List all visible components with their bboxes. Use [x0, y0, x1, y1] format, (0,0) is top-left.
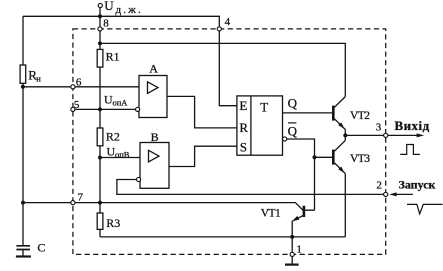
svg-text:R3: R3 [106, 216, 120, 230]
svg-text:A: A [149, 62, 158, 76]
svg-text:VT3: VT3 [350, 153, 370, 165]
svg-text:1: 1 [296, 243, 302, 255]
svg-text:T: T [260, 100, 268, 115]
svg-text:Вихід: Вихід [395, 118, 430, 133]
svg-text:опА: опА [113, 98, 129, 108]
svg-text:6: 6 [76, 76, 82, 88]
svg-text:U: U [104, 0, 114, 13]
svg-text:B: B [151, 130, 159, 144]
svg-text:VT1: VT1 [261, 208, 281, 220]
svg-text:5: 5 [74, 99, 80, 111]
svg-text:н: н [36, 73, 41, 83]
svg-text:S: S [240, 140, 247, 155]
svg-text:Запуск: Запуск [399, 177, 436, 191]
svg-text:VT2: VT2 [350, 110, 370, 122]
svg-text:д.ж.: д.ж. [116, 4, 144, 16]
svg-text:8: 8 [103, 17, 109, 29]
svg-text:опВ: опВ [115, 150, 130, 160]
svg-text:C: C [37, 241, 45, 255]
svg-text:Q: Q [288, 96, 298, 111]
svg-text:R2: R2 [106, 129, 120, 143]
svg-text:4: 4 [225, 16, 231, 28]
svg-text:2: 2 [376, 179, 382, 191]
svg-text:Q: Q [288, 124, 298, 139]
svg-text:3: 3 [376, 122, 382, 134]
svg-text:R: R [239, 120, 248, 135]
svg-text:7: 7 [78, 192, 84, 204]
svg-text:E: E [239, 98, 247, 113]
svg-text:R1: R1 [106, 50, 120, 64]
